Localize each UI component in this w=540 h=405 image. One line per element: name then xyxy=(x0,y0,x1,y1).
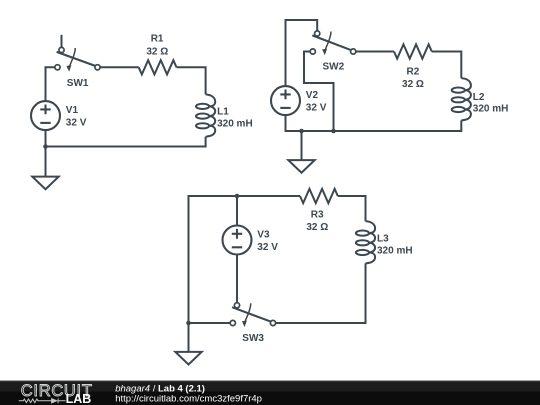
switch SW2 xyxy=(310,31,356,55)
wire xyxy=(276,263,366,323)
wire xyxy=(286,115,462,131)
svg-text:320 mH: 320 mH xyxy=(377,245,413,256)
wire xyxy=(189,322,231,324)
switch SW3 xyxy=(230,303,275,327)
junction dot xyxy=(43,144,48,149)
ground xyxy=(32,177,58,190)
inductor L3 xyxy=(356,221,375,263)
svg-text:32 Ω: 32 Ω xyxy=(146,47,168,58)
wire xyxy=(189,196,301,323)
svg-text:LAB: LAB xyxy=(66,392,92,405)
wire xyxy=(100,66,139,68)
svg-text:32 V: 32 V xyxy=(66,118,87,129)
inductor L2 xyxy=(452,78,471,120)
wire xyxy=(46,67,55,101)
junction dot xyxy=(235,194,240,199)
ground xyxy=(288,160,314,173)
wire xyxy=(188,323,190,352)
voltage source V2 32 V xyxy=(271,86,300,115)
svg-text:L3: L3 xyxy=(377,234,389,245)
resistor R2 xyxy=(394,44,432,58)
wire xyxy=(286,20,318,86)
svg-text:SW2: SW2 xyxy=(323,61,345,72)
svg-text:L2: L2 xyxy=(473,92,485,103)
svg-text:320 mH: 320 mH xyxy=(217,118,253,129)
svg-text:SW3: SW3 xyxy=(242,333,264,344)
svg-text:32 Ω: 32 Ω xyxy=(306,222,328,233)
svg-text:V1: V1 xyxy=(66,105,79,116)
svg-text:320 mH: 320 mH xyxy=(473,104,509,115)
svg-text:V2: V2 xyxy=(306,90,319,101)
svg-text:L1: L1 xyxy=(217,106,229,117)
svg-text:SW1: SW1 xyxy=(67,78,89,89)
svg-text:32 V: 32 V xyxy=(257,242,278,253)
junction dot xyxy=(331,129,336,134)
wire xyxy=(304,52,334,132)
voltage source V1 32 V xyxy=(31,101,60,130)
junction dot xyxy=(186,321,191,326)
svg-text:V3: V3 xyxy=(257,230,270,241)
ground xyxy=(175,352,201,365)
switch SW1 xyxy=(55,35,100,72)
wire xyxy=(236,196,238,226)
svg-text:R3: R3 xyxy=(311,209,324,220)
junction dot xyxy=(299,129,304,134)
wire xyxy=(46,137,206,147)
wire xyxy=(45,130,47,177)
svg-text:32 V: 32 V xyxy=(306,103,327,114)
wire xyxy=(338,196,366,221)
inductor L1 xyxy=(196,94,215,136)
wire xyxy=(356,51,394,53)
wire xyxy=(301,131,303,160)
logo squiggle resistor-diode xyxy=(19,398,66,403)
svg-text:R1: R1 xyxy=(151,34,164,45)
resistor R3 xyxy=(300,189,338,203)
resistor R1 xyxy=(139,60,177,74)
voltage source V3 32 V xyxy=(223,226,252,255)
wire xyxy=(236,255,238,303)
svg-text:http://circuitlab.com/cmc3zfe9: http://circuitlab.com/cmc3zfe9f7r4p xyxy=(115,393,262,404)
wire xyxy=(432,52,462,79)
footer bar xyxy=(0,381,540,405)
svg-text:32 Ω: 32 Ω xyxy=(402,79,424,90)
wire xyxy=(177,67,206,94)
svg-text:R2: R2 xyxy=(407,66,420,77)
